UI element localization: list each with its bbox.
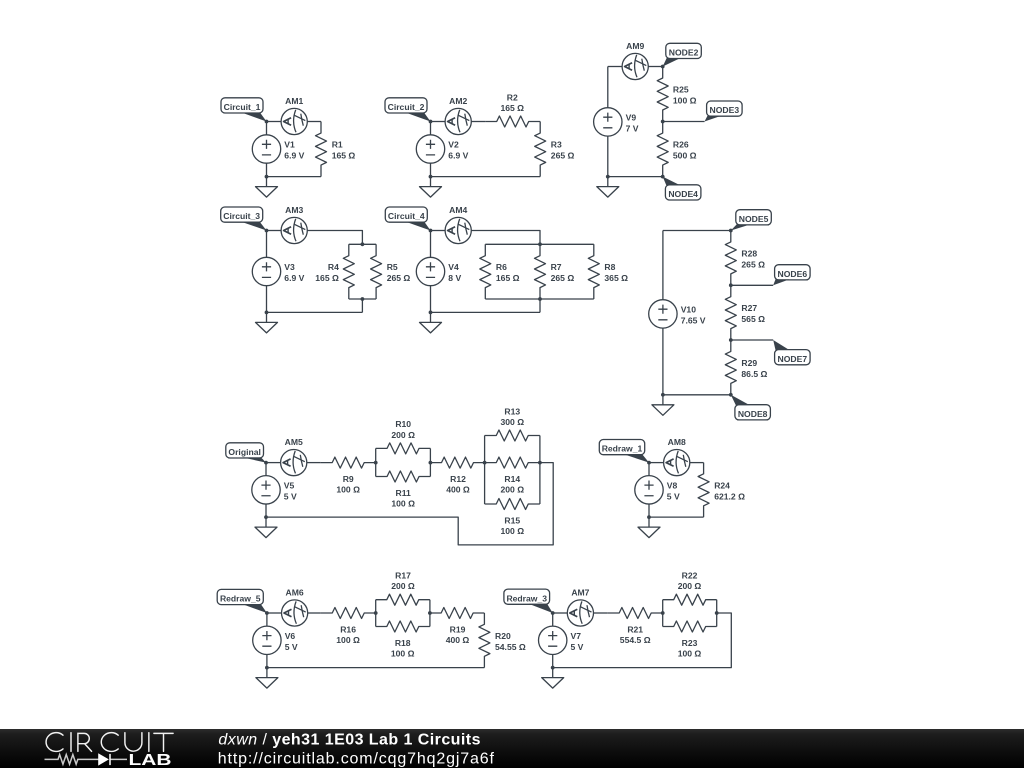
wire trio to bottom circuit4	[539, 299, 541, 312]
svg-text:R1: R1	[332, 140, 343, 150]
svg-text:6.9 V: 6.9 V	[448, 151, 468, 161]
voltage source V1	[252, 135, 280, 163]
svg-text:R21: R21	[627, 624, 643, 634]
svg-text:R8: R8	[604, 262, 615, 272]
wire V3 bottom pin	[266, 286, 268, 313]
svg-text:100 Ω: 100 Ω	[391, 649, 415, 659]
resistor R4	[343, 244, 354, 299]
wire V3 top pin	[266, 231, 268, 258]
wire trio bottom rail	[485, 298, 594, 300]
svg-text:165 Ω: 165 Ω	[500, 103, 524, 113]
node Redraw_3 junction	[551, 611, 555, 615]
svg-text:6.9 V: 6.9 V	[284, 273, 304, 283]
svg-text:R20: R20	[495, 631, 511, 641]
wire pair left vertical	[375, 448, 377, 476]
svg-text:AM8: AM8	[668, 437, 686, 447]
wire V9 to AM9	[608, 66, 622, 68]
node flag Circuit_4	[385, 207, 430, 231]
node flag NODE7	[773, 340, 810, 365]
svg-text:AM9: AM9	[626, 41, 644, 51]
svg-text:V8: V8	[667, 480, 678, 490]
resistor R22	[663, 594, 717, 605]
wire V10 bottom pin	[662, 328, 664, 395]
junction pair2-R19	[428, 611, 432, 615]
svg-text:200 Ω: 200 Ω	[391, 430, 415, 440]
svg-text:54.55 Ω: 54.55 Ω	[495, 642, 526, 652]
svg-text:R25: R25	[673, 85, 689, 95]
svg-text:86.5 Ω: 86.5 Ω	[741, 369, 767, 379]
node Circuit_1 junction	[265, 120, 269, 124]
svg-text:V4: V4	[448, 262, 459, 272]
svg-text:V3: V3	[284, 262, 295, 272]
ground V10 circuit	[652, 395, 674, 416]
wire V9 bottom pin	[607, 136, 609, 177]
svg-text:6.9 V: 6.9 V	[284, 151, 304, 161]
svg-text:Original: Original	[228, 447, 260, 457]
svg-text:R22: R22	[682, 571, 698, 581]
svg-text:R15: R15	[504, 515, 520, 525]
svg-text:NODE8: NODE8	[738, 409, 768, 419]
junction Redraw_5 bottom	[265, 666, 269, 670]
wire bottom Redraw_1	[649, 516, 704, 518]
node flag Circuit_3	[221, 207, 267, 231]
wire V8 bottom pin	[648, 504, 650, 517]
node NODE6 junction	[729, 283, 733, 287]
ammeter AM1	[281, 108, 307, 134]
ground circuit1	[256, 177, 278, 198]
wire V10 top	[663, 230, 731, 232]
junction Redraw_3 bottom	[551, 666, 555, 670]
svg-text:100 Ω: 100 Ω	[673, 96, 697, 106]
wire V9 top pin	[607, 67, 609, 108]
wire node Circuit_2 to AM2	[431, 121, 446, 123]
wire AM6 to R16	[308, 612, 321, 614]
svg-text:5 V: 5 V	[571, 642, 584, 652]
ground Redraw_5	[256, 668, 278, 689]
resistor R15	[485, 499, 540, 510]
svg-text:Circuit_3: Circuit_3	[223, 211, 260, 221]
svg-text:365 Ω: 365 Ω	[604, 273, 628, 283]
wire V2 bottom pin	[430, 163, 432, 176]
voltage source V5	[252, 476, 280, 504]
CircuitLab logo wordmark CIRCUIT	[46, 733, 173, 752]
resistor R24	[698, 463, 709, 517]
wire bottom circuit1	[267, 176, 322, 178]
wire V4 top pin	[430, 231, 432, 258]
resistor R20	[479, 613, 490, 668]
ammeter AM9	[622, 53, 648, 79]
svg-text:165 Ω: 165 Ω	[496, 273, 520, 283]
node flag NODE8	[731, 395, 771, 420]
svg-text:AM3: AM3	[285, 205, 303, 215]
svg-text:300 Ω: 300 Ω	[500, 417, 524, 427]
resistor R19	[430, 608, 485, 619]
node flag Redraw_3	[504, 589, 553, 613]
svg-text:AM4: AM4	[449, 205, 467, 215]
svg-text:554.5 Ω: 554.5 Ω	[620, 635, 651, 645]
svg-text:dxwn / yeh31 1E03 Lab 1 Circui: dxwn / yeh31 1E03 Lab 1 Circuits	[218, 732, 481, 749]
voltage source V4	[416, 257, 444, 285]
ammeter AM4	[445, 217, 471, 243]
ground circuit3	[256, 312, 278, 333]
ammeter AM7	[567, 600, 593, 626]
svg-text:V2: V2	[448, 140, 459, 150]
svg-text:R10: R10	[395, 419, 411, 429]
svg-text:AM7: AM7	[571, 587, 589, 597]
node flag Original	[226, 443, 266, 463]
wire V1 top pin	[266, 122, 268, 135]
svg-text:265 Ω: 265 Ω	[741, 259, 765, 269]
wire V6 top pin	[266, 613, 268, 626]
node flag Circuit_2	[385, 98, 431, 122]
svg-text:200 Ω: 200 Ω	[678, 581, 702, 591]
svg-text:R28: R28	[741, 248, 757, 258]
svg-text:Redraw_3: Redraw_3	[506, 593, 547, 603]
svg-text:500 Ω: 500 Ω	[673, 151, 697, 161]
node NODE7 junction	[729, 338, 733, 342]
junction V9 bottom	[606, 175, 610, 179]
ammeter AM2	[445, 108, 471, 134]
svg-text:AM6: AM6	[286, 587, 304, 597]
wire AM9 to NODE2	[648, 66, 662, 68]
svg-text:AM2: AM2	[449, 96, 467, 106]
wire return loop Original	[266, 463, 553, 545]
resistor R17	[376, 594, 430, 605]
wire bottom circuit2	[431, 176, 541, 178]
svg-text:100 Ω: 100 Ω	[500, 526, 524, 536]
wire V6 bottom pin	[266, 655, 268, 668]
resistor R6	[480, 244, 491, 299]
svg-text:400 Ω: 400 Ω	[446, 635, 470, 645]
ammeter AM5	[281, 450, 307, 476]
wire AM2 to R2	[471, 121, 485, 123]
wire bottom V9 circuit	[608, 176, 663, 178]
resistor R9	[321, 457, 376, 468]
node NODE2 junction	[661, 65, 665, 69]
svg-text:R27: R27	[741, 303, 757, 313]
svg-text:Circuit_4: Circuit_4	[388, 211, 425, 221]
junction trio bottom	[538, 297, 542, 301]
resistor R27	[725, 285, 736, 340]
junction Redraw_1 bottom	[647, 515, 651, 519]
node Redraw_5 junction	[265, 611, 269, 615]
node flag NODE4	[663, 177, 701, 200]
wire node Circuit_3 to AM3	[267, 230, 281, 232]
svg-text:R3: R3	[551, 140, 562, 150]
resistor R23	[663, 621, 717, 632]
wire pair to bottom circuit3	[361, 299, 363, 312]
wire AM8 to R24	[690, 462, 704, 464]
wire trio right vertical	[539, 436, 541, 505]
svg-text:165 Ω: 165 Ω	[332, 151, 356, 161]
svg-text:R18: R18	[395, 638, 411, 648]
svg-text:100 Ω: 100 Ω	[336, 485, 360, 495]
resistor R18	[376, 621, 430, 632]
wire V10 top pin	[662, 231, 664, 300]
svg-text:R26: R26	[673, 140, 689, 150]
svg-text:265 Ω: 265 Ω	[551, 273, 575, 283]
wire bottom Redraw_5	[267, 667, 485, 669]
junction V10 bottom	[661, 393, 665, 397]
wire node Circuit_1 to AM1	[267, 121, 282, 123]
node Redraw_1 junction	[647, 461, 651, 465]
node Circuit_2 junction	[429, 120, 433, 124]
node flag Redraw_5	[217, 589, 267, 613]
wire AM5 to R9	[307, 462, 321, 464]
svg-text:R16: R16	[340, 624, 356, 634]
wire V8 top pin	[648, 463, 650, 476]
svg-text:AM1: AM1	[285, 96, 303, 106]
wire NODE7 stub	[731, 339, 773, 341]
resistor R13	[485, 430, 540, 441]
ammeter AM8	[664, 450, 690, 476]
svg-text:7 V: 7 V	[626, 123, 639, 133]
svg-text:100 Ω: 100 Ω	[336, 635, 360, 645]
wire bottom V10 circuit	[663, 394, 731, 396]
svg-text:Circuit_2: Circuit_2	[388, 102, 425, 112]
wire pair3 right vertical	[716, 600, 718, 627]
junction pair top	[361, 242, 365, 246]
junction circuit4 bottom	[429, 311, 433, 315]
voltage source V8	[635, 476, 663, 504]
junction R21-pair3	[661, 611, 665, 615]
resistor R3	[535, 122, 546, 177]
junction trio top	[538, 242, 542, 246]
svg-text:R29: R29	[741, 358, 757, 368]
svg-text:V1: V1	[284, 140, 295, 150]
svg-text:R5: R5	[387, 262, 398, 272]
svg-text:Redraw_1: Redraw_1	[602, 444, 643, 454]
svg-text:LAB: LAB	[129, 752, 172, 768]
svg-text:R11: R11	[396, 488, 412, 498]
junction R16-pair2	[374, 611, 378, 615]
svg-text:NODE5: NODE5	[739, 214, 769, 224]
svg-text:8 V: 8 V	[448, 273, 461, 283]
junction circuit2 bottom	[429, 175, 433, 179]
wire node Redraw_5 to AM6	[267, 612, 282, 614]
voltage source V2	[416, 135, 444, 163]
wire trio left vertical	[484, 436, 486, 505]
node NODE4 junction	[661, 175, 665, 179]
wire pair2 right vertical	[429, 600, 431, 627]
wire V7 top pin	[552, 613, 554, 626]
svg-text:AM5: AM5	[285, 437, 303, 447]
resistor R21	[608, 608, 663, 619]
svg-text:V9: V9	[626, 112, 637, 122]
ground V9 circuit	[597, 177, 619, 198]
svg-text:R13: R13	[504, 406, 520, 416]
svg-text:NODE4: NODE4	[668, 189, 698, 199]
junction pair bottom	[361, 297, 365, 301]
resistor R8	[588, 244, 599, 299]
resistor R25	[657, 67, 668, 122]
wire node Original to AM5	[266, 462, 281, 464]
svg-text:565 Ω: 565 Ω	[741, 314, 765, 324]
svg-text:R2: R2	[507, 92, 518, 102]
svg-text:R12: R12	[450, 474, 466, 484]
voltage source V9	[594, 108, 622, 136]
wire V2 top pin	[430, 122, 432, 135]
wire V4 bottom pin	[430, 286, 432, 313]
wire V5 top pin	[265, 463, 267, 476]
junction trio-right	[538, 461, 542, 465]
svg-text:Redraw_5: Redraw_5	[220, 594, 261, 604]
svg-text:V6: V6	[285, 631, 296, 641]
node Original junction	[264, 461, 268, 465]
wire NODE6 stub	[731, 284, 773, 286]
node Circuit_4 junction	[429, 229, 433, 233]
resistor R29	[725, 340, 736, 395]
wire NODE3 stub	[663, 121, 705, 123]
svg-text:100 Ω: 100 Ω	[678, 649, 702, 659]
resistor R5	[371, 244, 382, 299]
svg-text:R24: R24	[714, 480, 730, 490]
wire V5 bottom pin	[265, 504, 267, 517]
wire node Redraw_1 to AM8	[649, 462, 664, 464]
wire V7 bottom pin	[552, 655, 554, 668]
svg-text:R19: R19	[450, 624, 466, 634]
svg-text:Circuit_1: Circuit_1	[224, 102, 261, 112]
resistor R28	[725, 231, 736, 286]
svg-text:5 V: 5 V	[284, 491, 297, 501]
svg-text:7.65 V: 7.65 V	[681, 315, 706, 325]
svg-text:NODE7: NODE7	[778, 354, 808, 364]
svg-text:200 Ω: 200 Ω	[391, 581, 415, 591]
svg-text:R14: R14	[504, 474, 520, 484]
wire bottom circuit4	[431, 311, 541, 313]
svg-text:R4: R4	[328, 262, 339, 272]
svg-text:V7: V7	[571, 631, 582, 641]
wire return Redraw_3	[553, 613, 732, 668]
svg-text:V5: V5	[284, 480, 295, 490]
svg-text:NODE6: NODE6	[778, 269, 808, 279]
svg-text:R9: R9	[343, 474, 354, 484]
resistor R14	[485, 457, 540, 468]
node flag NODE3	[705, 101, 743, 122]
svg-text:R7: R7	[551, 262, 562, 272]
node flag NODE5	[731, 210, 772, 231]
ground Redraw_1	[638, 517, 660, 538]
node flag Redraw_1	[599, 440, 649, 463]
resistor R7	[535, 244, 546, 299]
svg-text:NODE3: NODE3	[710, 105, 740, 115]
resistor R26	[657, 122, 668, 177]
node NODE5 junction	[729, 229, 733, 233]
wire AM4 to parallel trio	[471, 231, 540, 245]
node flag NODE2	[663, 43, 702, 66]
voltage source V7	[539, 626, 567, 654]
wire V1 bottom pin	[266, 163, 268, 176]
junction circuit3 bottom	[265, 311, 269, 315]
junction pair-R12	[429, 461, 433, 465]
svg-text:NODE2: NODE2	[669, 48, 699, 58]
wire pair bottom rail	[349, 298, 376, 300]
wire node Circuit_4 to AM4	[431, 230, 446, 232]
node flag Circuit_1	[221, 98, 267, 122]
svg-text:R17: R17	[395, 571, 411, 581]
svg-text:165 Ω: 165 Ω	[315, 273, 339, 283]
junction R9-pair	[374, 461, 378, 465]
node NODE3 junction	[661, 120, 665, 124]
ground circuit2	[420, 177, 442, 198]
resistor R11	[376, 471, 431, 482]
wire AM7 to R21	[594, 612, 608, 614]
node NODE8 junction	[729, 393, 733, 397]
voltage source V10	[649, 300, 677, 328]
svg-text:265 Ω: 265 Ω	[551, 151, 575, 161]
resistor R2	[485, 116, 540, 127]
resistor R1	[316, 122, 327, 177]
ammeter AM6	[282, 600, 308, 626]
resistor R12	[430, 457, 484, 468]
svg-text:http://circuitlab.com/cqg7hq2g: http://circuitlab.com/cqg7hq2gj7a6f	[218, 750, 495, 767]
svg-text:5 V: 5 V	[285, 642, 298, 652]
resistor R10	[376, 443, 431, 454]
wire trio top rail	[485, 243, 594, 245]
junction circuit1 bottom	[265, 175, 269, 179]
junction R12-trio	[483, 461, 487, 465]
ground circuit4	[420, 312, 442, 333]
wire AM1 to R1	[307, 121, 321, 123]
svg-text:R6: R6	[496, 262, 507, 272]
logo resistor-diode symbol	[45, 754, 128, 765]
svg-text:400 Ω: 400 Ω	[446, 485, 470, 495]
wire pair right vertical	[429, 448, 431, 476]
svg-text:V10: V10	[681, 304, 697, 314]
wire AM3 to parallel pair	[307, 231, 362, 245]
wire bottom circuit3	[267, 311, 363, 313]
wire node Redraw_3 to AM7	[553, 612, 568, 614]
svg-text:200 Ω: 200 Ω	[500, 485, 524, 495]
node flag NODE6	[773, 265, 810, 286]
voltage source V6	[253, 626, 281, 654]
ammeter AM3	[281, 217, 307, 243]
voltage source V3	[252, 257, 280, 285]
svg-text:5 V: 5 V	[667, 491, 680, 501]
wire pair3 left vertical	[662, 600, 664, 627]
wire pair top rail	[349, 243, 376, 245]
svg-text:265 Ω: 265 Ω	[387, 273, 411, 283]
footer bar	[0, 729, 1024, 768]
ground Original circuit	[255, 517, 277, 538]
ground Redraw_3	[542, 668, 564, 689]
svg-text:621.2 Ω: 621.2 Ω	[714, 491, 745, 501]
wire pair2 left vertical	[375, 600, 377, 627]
junction pair3-right	[715, 611, 719, 615]
svg-text:R23: R23	[682, 638, 698, 648]
resistor R16	[321, 608, 376, 619]
svg-text:100 Ω: 100 Ω	[391, 499, 415, 509]
junction Original bottom	[264, 515, 268, 519]
node Circuit_3 junction	[265, 229, 269, 233]
